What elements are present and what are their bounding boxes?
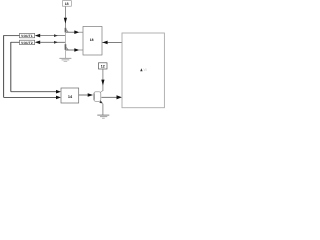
- svg-text:18: 18: [65, 2, 69, 6]
- arrowhead into B right side: [102, 41, 107, 45]
- arrowhead into H upper input: [56, 90, 61, 94]
- arrowhead down on VB wire: [64, 18, 67, 24]
- wire A to B: [102, 41, 122, 43]
- arrowhead into B top input: [74, 30, 79, 34]
- arrowhead into VOUT1: [35, 34, 40, 38]
- arrowhead down on IM wire: [101, 80, 104, 86]
- wire line1 to Q1 column: [40, 35, 65, 37]
- svg-text:12: 12: [101, 65, 105, 69]
- transistor Q3: [94, 91, 103, 104]
- transistor Q1: [65, 28, 69, 33]
- wire H to Q3 base: [79, 94, 89, 96]
- arrowhead into H lower input: [56, 96, 61, 100]
- block IM "12": [99, 63, 108, 69]
- svg-text:18: 18: [90, 38, 94, 42]
- wire Q1 column down to ground: [64, 32, 66, 58]
- output block VOUT1: [20, 33, 35, 38]
- block A (large): [122, 33, 164, 108]
- wire VOUT2 left stub: [11, 41, 20, 43]
- small arrowhead on line1: [54, 34, 58, 37]
- block H "14": [61, 88, 79, 103]
- arrowhead into VOUT2: [35, 41, 40, 45]
- svg-text:VOUT1: VOUT1: [21, 34, 33, 38]
- output block VOUT2: [20, 40, 35, 45]
- wire VB to Q1: [64, 7, 66, 28]
- arrowhead into B lower input: [74, 48, 79, 52]
- wire line2 to Q2 column: [40, 41, 65, 43]
- wire Q3 emitter down: [102, 104, 104, 115]
- arrowhead into A: [117, 95, 122, 99]
- wire Q1 to block B: [66, 31, 75, 33]
- wire Q2 to block B: [66, 49, 75, 51]
- block B "18": [83, 27, 102, 56]
- ground G2: [97, 115, 109, 118]
- wire VOUT1 left stub: [4, 35, 20, 37]
- feedback wire outer L: [4, 35, 56, 97]
- transistor Q2: [65, 44, 69, 50]
- svg-text:VOUT2: VOUT2: [21, 41, 33, 45]
- arrowhead into Q3 base: [88, 93, 93, 97]
- bias box VB "18": [63, 1, 72, 7]
- wire IM down to Q3: [102, 69, 104, 91]
- ground G1: [59, 58, 71, 61]
- svg-text:W: W: [144, 68, 148, 72]
- small arrowhead on line2: [54, 41, 58, 44]
- feedback wire inner L: [11, 42, 56, 92]
- wire Q3 to block A: [101, 96, 117, 98]
